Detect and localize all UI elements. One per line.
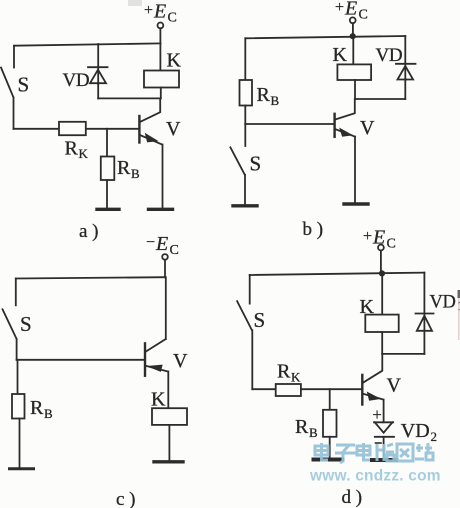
wire from terminal down (a) xyxy=(159,28,161,43)
wire top rail (d) xyxy=(250,273,425,275)
wire switch to base node (c) xyxy=(16,339,18,360)
wire junction to relay K (d) xyxy=(381,274,383,315)
svg-text:VD: VD xyxy=(63,70,90,91)
scan artifact faint line right edge xyxy=(458,298,460,340)
switch S blade (b) xyxy=(230,147,244,174)
svg-text:2: 2 xyxy=(431,429,438,444)
wire rail left down to switch (d) xyxy=(249,275,251,304)
wire relay to collector node (b) xyxy=(354,80,356,99)
transistor V (a) base bar xyxy=(138,116,140,143)
wire base rail left segment (a) xyxy=(14,128,61,130)
wire left drop to switch (a) xyxy=(13,46,15,68)
ground under VD2 (d) xyxy=(372,458,396,462)
ground under emitter (b) xyxy=(344,202,368,205)
svg-text:VD: VD xyxy=(376,45,403,66)
junction dot (b) xyxy=(350,33,356,39)
svg-text:R: R xyxy=(295,416,309,438)
diode VD1 wire top (d) xyxy=(423,273,425,331)
scan artifact dark blob right edge xyxy=(458,290,460,298)
transistor V (a) collector lead xyxy=(140,98,160,122)
transistor V (a) emitter arrow xyxy=(146,134,158,142)
svg-text:S: S xyxy=(18,73,30,97)
transistor V (b) collector lead xyxy=(335,99,355,120)
wire terminal down (c) xyxy=(164,260,166,277)
wire RK to base (d) xyxy=(301,388,362,390)
ground under RB (d) xyxy=(314,458,343,462)
label RB (d) xyxy=(295,416,318,440)
svg-text:V: V xyxy=(360,117,375,139)
svg-text:VD: VD xyxy=(401,420,430,442)
minus polarity label (d) xyxy=(376,442,382,444)
wire switch to base rail (a) xyxy=(13,98,15,129)
node +EC label (a) xyxy=(144,1,177,26)
svg-text:R: R xyxy=(277,361,291,383)
svg-text:K: K xyxy=(167,50,182,72)
terminal +EC (d) xyxy=(378,245,384,251)
transistor V (b) emitter arrow xyxy=(340,129,352,137)
watermark line 1: simplified CJK glyphs xyxy=(315,443,433,463)
watermark char zhan xyxy=(415,443,433,460)
junction dot (d) xyxy=(379,270,385,276)
diode VD1 cathode bar (d) xyxy=(416,313,434,315)
diode VD wire bottom (a) xyxy=(97,83,99,98)
wire RB to base node (b) xyxy=(244,106,246,125)
svg-text:R: R xyxy=(65,138,79,160)
wire terminal to junction (b) xyxy=(352,23,354,37)
resistor RK (a) xyxy=(59,122,86,135)
plus polarity label (d) xyxy=(372,405,382,424)
svg-text:C: C xyxy=(359,8,368,23)
svg-text:K: K xyxy=(333,44,348,66)
svg-text:C: C xyxy=(168,11,177,26)
wire VD2 to ground (d) xyxy=(383,437,385,458)
relay coil K (b) xyxy=(337,64,371,80)
transistor V (c) collector lead xyxy=(146,339,166,351)
resistor RB (b) xyxy=(240,80,253,106)
wire RB to ground (d) xyxy=(329,437,331,457)
watermark char zi xyxy=(335,445,356,463)
ground under switch (b) xyxy=(233,204,257,207)
wire RB bottom (a) xyxy=(106,180,108,208)
svg-text:K: K xyxy=(291,370,301,385)
svg-text:www. cndzz. com: www. cndzz. com xyxy=(309,468,441,485)
wire top rail (a) xyxy=(14,43,160,45)
wire emitter down (a) xyxy=(162,145,164,208)
diode VD wire top (b) xyxy=(404,36,406,80)
label RB (b) xyxy=(257,84,280,108)
svg-text:K: K xyxy=(151,389,166,411)
svg-text:R: R xyxy=(30,397,44,419)
label VD1 (d) xyxy=(430,293,460,314)
wire switch down to RK rail (d) xyxy=(251,330,253,389)
svg-text:V: V xyxy=(173,350,188,372)
diode VD (a) triangle xyxy=(90,70,106,84)
wire relay to ground (c) xyxy=(168,425,170,460)
svg-text:d ): d ) xyxy=(342,487,363,508)
wire rail left down to switch (c) xyxy=(15,279,17,306)
diode VD cathode bar (b) xyxy=(396,63,416,65)
wire diode bottom to collector node (b) xyxy=(355,98,405,100)
ground under RB (c) xyxy=(10,467,34,470)
label VD2 (d) xyxy=(401,420,437,444)
ground under emitter (a) xyxy=(149,208,173,211)
diode VD2 cathode bar (d) xyxy=(375,436,394,438)
diode VD1 triangle (d) xyxy=(417,316,432,331)
diode VD2 triangle (d) xyxy=(375,422,393,432)
diode VD2 anode bar (top of triangle) (d) xyxy=(374,421,393,423)
resistor RB (d) xyxy=(323,410,337,437)
diode VD (a) cathode bar xyxy=(88,66,108,68)
ground under RB (a) xyxy=(97,208,119,211)
transistor V (b) base bar xyxy=(333,114,335,137)
watermark char dian xyxy=(315,443,328,460)
wire rail to relay K (a) xyxy=(159,43,161,70)
svg-text:B: B xyxy=(44,406,53,421)
watermark char lu xyxy=(377,444,394,461)
wire base node down to RB (c) xyxy=(17,360,19,394)
wire rail down to RB (b) xyxy=(244,38,246,80)
scan artifact smudge top-left xyxy=(128,0,142,6)
svg-text:VD: VD xyxy=(430,293,456,313)
watermark char tu xyxy=(397,444,413,461)
transistor V (a) emitter lead xyxy=(140,135,162,145)
wire collector node to diode bottom (d) xyxy=(382,353,424,355)
svg-text:+: + xyxy=(335,0,344,16)
wire emitter down to relay (c) xyxy=(167,372,169,409)
wire switch to ground (b) xyxy=(244,175,246,204)
wire junction to relay K (b) xyxy=(352,37,354,64)
transistor V (b) emitter lead xyxy=(335,129,355,137)
svg-text:V: V xyxy=(387,375,402,397)
wire RB top (a) xyxy=(106,129,108,157)
label RK (d) xyxy=(277,361,301,385)
wire base node down to RB (d) xyxy=(329,389,331,410)
relay coil K (d) xyxy=(365,315,398,332)
switch S blade (d) xyxy=(237,301,252,330)
terminal +EC (a) xyxy=(158,23,164,29)
ground under relay K (c) xyxy=(154,460,183,463)
wire emitter down (b) xyxy=(354,137,356,203)
watermark char dian2 xyxy=(357,443,370,460)
svg-text:S: S xyxy=(254,308,266,332)
terminal +EC (b) xyxy=(350,17,356,23)
wire relay to collector node (d) xyxy=(381,332,383,354)
diode VD1 wire bottom (d) xyxy=(423,331,425,354)
svg-text:+: + xyxy=(363,228,372,245)
wire emitter down to VD2 (d) xyxy=(383,400,385,423)
wire diode to collector node (a) xyxy=(98,97,161,99)
wire top rail (b) xyxy=(245,36,405,38)
svg-text:V: V xyxy=(166,118,181,140)
diode VD wire top (a) xyxy=(97,44,99,84)
svg-text:S: S xyxy=(250,152,262,176)
svg-text:E: E xyxy=(155,233,168,255)
svg-text:C: C xyxy=(387,237,396,252)
transistor V (d) base bar xyxy=(361,375,363,405)
svg-text:−: − xyxy=(146,234,155,251)
svg-text:E: E xyxy=(344,0,357,20)
diode VD wire bottom (b) xyxy=(404,80,406,100)
wire base rail (c) xyxy=(17,359,145,361)
wire terminal to junction (d) xyxy=(380,251,382,274)
svg-text:B: B xyxy=(309,425,318,440)
node -EC label (c) xyxy=(146,233,179,258)
node +EC label (d) xyxy=(363,227,396,252)
svg-text:R: R xyxy=(257,84,271,106)
svg-text:c ): c ) xyxy=(116,489,136,508)
svg-text:C: C xyxy=(170,243,179,258)
diode VD triangle (b) xyxy=(398,66,414,80)
svg-text:K: K xyxy=(79,146,89,161)
label RB (c) xyxy=(30,397,53,421)
resistor RB (a) xyxy=(101,157,115,181)
svg-text:B: B xyxy=(131,166,140,181)
svg-text:B: B xyxy=(271,93,280,108)
node +EC label (b) xyxy=(335,0,368,23)
svg-text:R: R xyxy=(117,157,131,179)
transistor V (c) emitter lead xyxy=(145,366,168,372)
wire base node down to switch (b) xyxy=(244,124,246,146)
transistor V (d) emitter arrow xyxy=(368,392,380,400)
label RK (a) xyxy=(65,138,89,162)
resistor RK (d) xyxy=(276,384,301,396)
transistor V (c) base bar xyxy=(144,343,146,375)
wire top rail (c) xyxy=(16,277,165,278)
svg-text:S: S xyxy=(20,312,32,336)
wire base rail (b) xyxy=(245,123,334,125)
transistor V (d) emitter lead xyxy=(363,394,383,400)
wire relay K to collector node (a) xyxy=(160,88,162,99)
svg-text:+: + xyxy=(144,2,153,19)
wire RB to ground (c) xyxy=(19,419,21,468)
transistor V (c) emitter arrow (PNP, pointing in) xyxy=(149,365,163,371)
resistor RB (c) xyxy=(12,394,25,419)
relay coil K (a) xyxy=(144,71,179,88)
wire rail down to collector (c) xyxy=(165,277,167,339)
wire RK to base (a) xyxy=(86,128,139,130)
svg-text:+: + xyxy=(372,405,382,424)
svg-text:a ): a ) xyxy=(79,221,99,242)
wire to RK (d) xyxy=(252,388,275,390)
label RB (a) xyxy=(117,157,140,181)
relay coil K (c) xyxy=(152,408,187,425)
svg-text:b ): b ) xyxy=(303,219,324,240)
transistor V (d) collector lead xyxy=(363,354,382,383)
svg-text:E: E xyxy=(153,1,166,23)
switch S blade (c) xyxy=(3,309,17,339)
switch S blade (a) xyxy=(1,68,14,98)
terminal -EC (c) xyxy=(162,254,168,260)
